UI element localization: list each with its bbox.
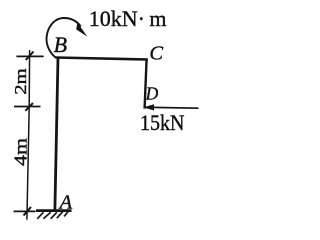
svg-text:A: A — [58, 191, 73, 213]
ground hatch 3 — [51, 212, 57, 219]
dimension line 2m segment — [28, 50, 30, 107]
svg-text:15kN: 15kN — [140, 110, 185, 135]
dimension tick bottom slash — [24, 207, 32, 216]
force arrowhead at D — [143, 104, 154, 110]
ground hatch 2 — [43, 212, 50, 219]
moment arc at B — [47, 18, 81, 58]
dimension tick middle slash — [25, 103, 33, 111]
svg-text:D: D — [145, 84, 159, 104]
member CD — [145, 59, 147, 109]
dimension tick middle — [14, 106, 41, 108]
svg-text:2m: 2m — [11, 68, 30, 95]
svg-text:10kN· m: 10kN· m — [89, 6, 167, 31]
ground hatch 1 — [37, 212, 43, 219]
beam BC — [55, 58, 148, 60]
ground hatch 4 — [57, 211, 63, 218]
force arrow at D shaft — [152, 106, 199, 109]
ground line at A — [36, 209, 72, 212]
svg-text:B: B — [54, 32, 67, 57]
column AB — [55, 58, 58, 210]
dimension tick top slash — [26, 52, 34, 61]
svg-text:4m: 4m — [10, 138, 30, 166]
moment arrowhead — [76, 22, 87, 36]
ground hatch 5 — [64, 210, 69, 216]
svg-text:C: C — [149, 43, 163, 65]
dimension tick top — [16, 55, 43, 57]
dimension line 4m segment — [27, 107, 29, 220]
dimension tick bottom — [14, 210, 36, 212]
